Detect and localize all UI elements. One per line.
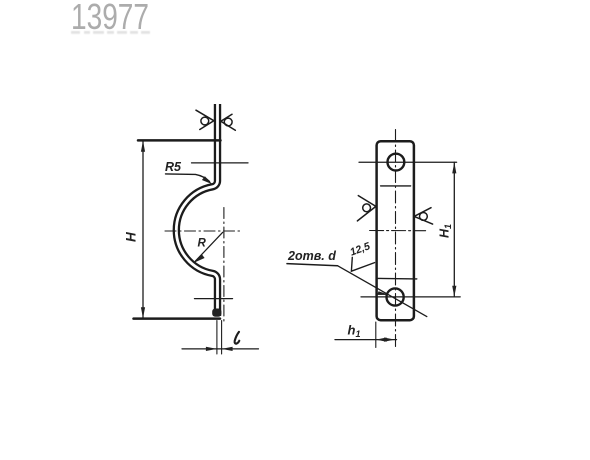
thickness dimension line [182, 348, 259, 350]
dimension h1 line [335, 339, 397, 341]
right view: plate outline [377, 141, 414, 320]
h1 left arrow [376, 338, 387, 342]
left view: strip profile (double line) [176, 104, 217, 316]
left view: top hole centerline [192, 162, 249, 164]
holes leader shelf [287, 264, 338, 266]
faint scan text line [71, 31, 150, 34]
R5 leader arrow [202, 176, 212, 184]
h1 extension line [375, 322, 377, 348]
right view: bottom hole horizontal centerline [361, 296, 460, 298]
right view: bottom hole [387, 288, 404, 305]
surface finish symbol left (right view) [357, 196, 376, 221]
holes leader line [338, 266, 427, 317]
label l (thickness) [235, 332, 240, 344]
left view: thickness extension lines below [217, 321, 222, 355]
surface finish symbol right (top of left view) [221, 114, 236, 130]
radius R arrow [194, 254, 205, 263]
right view: top hole horizontal centerline [359, 161, 457, 163]
surface finish symbol right (right view) [414, 208, 433, 224]
radius R leader [195, 232, 222, 261]
svg-text:R: R [198, 238, 207, 250]
dimension H1 line [453, 162, 455, 297]
dimension H1 top arrow [452, 162, 456, 173]
left view: strip bottom end cap [212, 309, 221, 317]
roughness check mark [351, 257, 374, 271]
left view: top edge line [138, 139, 221, 142]
svg-text:2отв. d: 2отв. d [287, 249, 336, 263]
thickness right arrow [222, 347, 233, 351]
left view: vertical dash-dot centerline [223, 208, 225, 323]
holes leader arrow [377, 291, 389, 295]
R5 leader shelf [166, 174, 210, 182]
right view: top bend line [381, 185, 411, 187]
dimension H line [142, 141, 144, 318]
dimension H top arrow [141, 141, 145, 152]
h1 right arrow [384, 338, 395, 342]
surface finish symbol left (top of left view) [196, 110, 214, 129]
left view: horizontal dash-dot centerline [165, 230, 240, 232]
thickness left arrow [206, 347, 217, 351]
left view: bottom edge line [134, 317, 221, 320]
dimension H1 bottom arrow [452, 286, 456, 297]
svg-text:H: H [124, 232, 139, 242]
left view: bottom hole centerline [195, 298, 233, 300]
dimension H bottom arrow [141, 307, 145, 318]
right view: vertical dash-dot hole centerline [395, 130, 397, 348]
right view: top hole [388, 154, 405, 171]
right view: bottom bend line [377, 277, 417, 280]
right view: middle dash-dot centerline [370, 230, 426, 232]
svg-text:R5: R5 [165, 160, 182, 174]
